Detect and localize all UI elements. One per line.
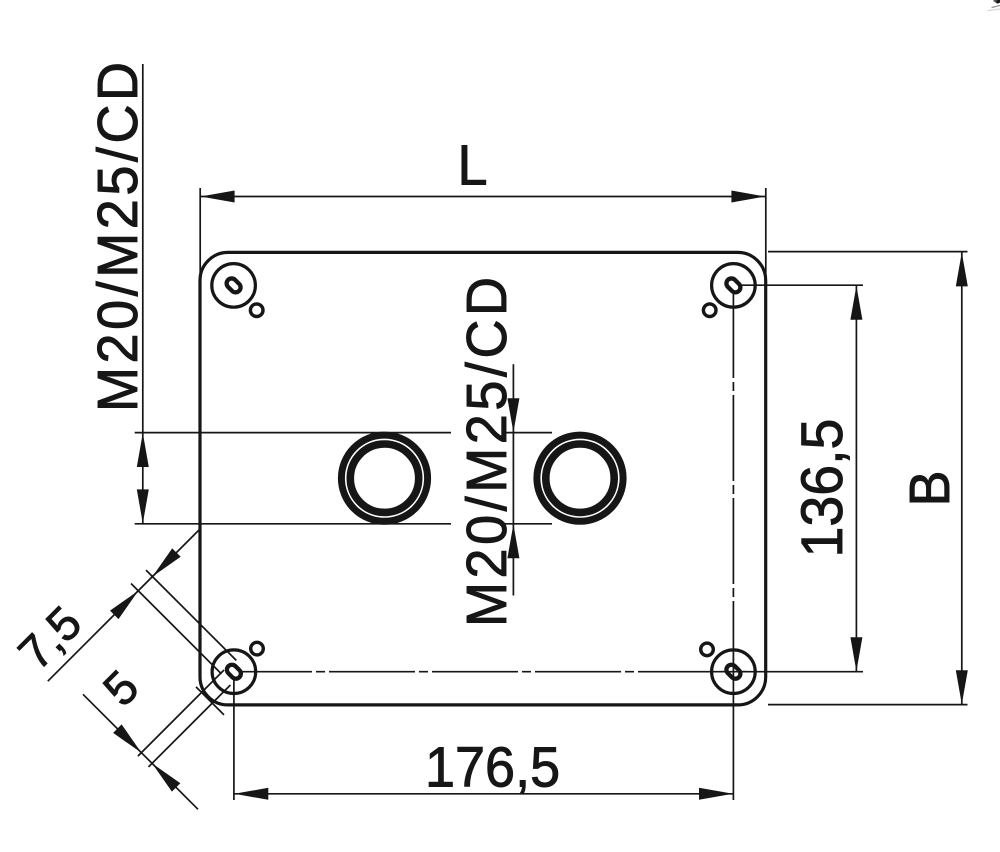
dimension 7,5 arrow lower (points up-right) [110,591,138,619]
dimension 136,5 line [855,286,857,672]
diagonal extension line P2 slot right tangent [149,685,231,767]
dimension L line [200,196,766,198]
svg-text:L: L [458,133,488,196]
screw hole top-right outer circle [712,264,756,308]
svg-text:B: B [898,470,961,506]
corner logo speck [995,0,1000,4]
dimension 136,5 arrow top [850,286,862,320]
dimension 136,5 extension line bottom [740,671,863,673]
screw hole bottom-right slot [724,663,742,681]
left cable knockout outer ring [341,435,427,521]
svg-text:136,5: 136,5 [790,419,856,558]
centerline crossing bottom-right slot (horizontal) [721,671,746,673]
dimension 7,5 line [48,529,201,682]
screw hole top-left slot [225,276,243,294]
left cable knockout inner ring [350,444,418,512]
dimension 136,5 extension line top [740,284,863,286]
svg-text:176,5: 176,5 [425,735,560,798]
dimension 176,5 line [234,793,734,795]
screw hole top-left outer circle [212,264,256,308]
left knockout dimension arrow up [137,433,149,467]
left knockout dimension arrow down [137,489,149,523]
screw hole top-left dot [250,304,263,317]
dimension L extension line right [765,188,767,282]
right cable knockout outer ring [537,435,623,521]
dimension B arrow bottom [956,670,968,704]
dimension 176,5 extension line left [233,679,235,800]
dimension B line [961,252,963,704]
knockout tangent line top left segment [135,432,451,434]
screw hole bottom-right outer circle [712,650,756,694]
svg-text:M20/M25/CD: M20/M25/CD [455,277,518,627]
vertical dash-dot centerline through right screw holes [732,292,734,660]
screw hole bottom-left dot [251,642,264,655]
dimension B extension line bottom [768,704,968,706]
middle knockout dimension arrow up [507,524,519,558]
dimension 176,5 arrow right [699,788,733,800]
middle knockout diameter dimension line [512,364,514,595]
knockout tangent line bottom right segment [504,523,552,525]
screw hole bottom-right dot [701,643,714,656]
centerline crossing bottom-right slot (vertical) [732,659,734,686]
screw hole bottom-left slot [225,663,243,681]
screw hole top-right slot [724,276,742,294]
diagonal extension line E3 corner tangent [196,687,224,715]
left knockout diameter dimension line [142,64,144,524]
dimension 176,5 arrow left [234,788,268,800]
knockout tangent line bottom left segment [135,523,451,525]
dimension L arrow left [201,191,235,203]
screw hole bottom-left outer circle [212,650,256,694]
dimension B arrow top [956,252,968,286]
horizontal dash-dot centerline through bottom screw holes [226,671,726,673]
dimension L arrow right [731,191,765,203]
dimension 176,5 extension line right [732,686,734,800]
svg-text:M20/M25/CD: M20/M25/CD [86,62,149,412]
middle knockout dimension arrow down [507,398,519,432]
dimension 5 arrow upper (points down-right) [113,724,141,752]
dimension B extension line top [768,251,968,253]
dimension L extension line left [199,188,201,282]
box outline (lid, rounded rectangle) [200,252,766,705]
dimension 5 arrow lower (points up-left) [152,763,180,791]
right cable knockout inner ring [546,444,614,512]
dimension 7,5 arrow upper (points down-left) [152,548,180,576]
diagonal extension line P1 slot left tangent [138,670,224,756]
diagonal extension line E1 through screw slot upper tangent [146,570,236,660]
diagonal extension line E2 lower tangent [131,584,221,674]
dimension 136,5 arrow bottom [850,637,862,671]
screw hole top-right dot [703,304,716,317]
dimension 5 line [83,694,198,809]
knockout tangent line top right segment [504,432,552,434]
